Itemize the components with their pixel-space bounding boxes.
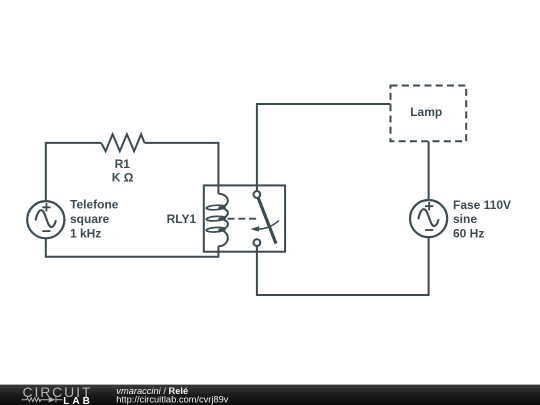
svg-text:LAB: LAB: [63, 396, 93, 405]
svg-text:Telefone: Telefone: [70, 198, 119, 212]
svg-text:sine: sine: [453, 212, 477, 226]
svg-text:RLY1: RLY1: [167, 212, 197, 226]
svg-text:60 Hz: 60 Hz: [453, 226, 484, 240]
svg-text:http://circuitlab.com/cvrj89v: http://circuitlab.com/cvrj89v: [116, 395, 228, 405]
svg-text:1 kHz: 1 kHz: [70, 226, 101, 240]
svg-text:square: square: [70, 212, 110, 226]
svg-text:R1: R1: [115, 157, 131, 171]
svg-text:Fase 110V: Fase 110V: [453, 198, 511, 212]
svg-text:K Ω: K Ω: [112, 171, 134, 185]
svg-text:Lamp: Lamp: [410, 105, 442, 119]
